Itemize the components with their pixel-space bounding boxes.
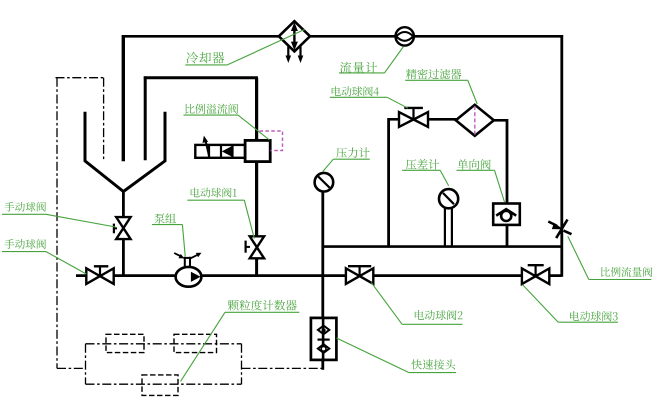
relief valve proportional arrow	[205, 140, 209, 159]
wire top line cooler to flow meter	[310, 35, 396, 38]
label valve2 电动球阀2	[371, 283, 462, 325]
pump drive arm left	[174, 253, 181, 256]
label pump 泵组	[152, 213, 185, 256]
wire counter loop bottom rail	[86, 383, 242, 385]
wire return drop into tank	[122, 35, 125, 161]
wire right vertical main	[560, 35, 563, 277]
check valve seat	[496, 209, 516, 215]
cooler inner arrowhead down	[291, 42, 298, 51]
wire manual valve to main line	[122, 239, 125, 277]
wire second drop into tank	[144, 76, 147, 160]
relief valve main body	[245, 140, 270, 161]
pressure gauge	[315, 173, 334, 192]
check valve box	[493, 204, 520, 225]
cooler inner arrow shaft	[293, 26, 295, 47]
quick coupler line	[322, 318, 325, 360]
cooler drain arrow right	[299, 47, 301, 58]
wire tank outlet to valve	[122, 191, 125, 218]
electric ball valve 1	[250, 236, 264, 247]
wire valve4 to filter	[428, 118, 457, 121]
proportional flow valve diag B stub	[564, 231, 572, 235]
cooler diamond	[279, 21, 310, 51]
wire filter loop right leg upper	[506, 119, 509, 204]
proportional flow valve arrowhead	[552, 223, 563, 230]
tank right wall	[123, 112, 165, 192]
wire top return line	[123, 35, 278, 38]
wire second horizontal line	[144, 76, 258, 79]
check valve ball	[501, 211, 511, 221]
label diff gauge 压差计	[402, 159, 449, 186]
wire dash-dot to counter loop	[57, 367, 86, 369]
wire relief valve lower leg	[255, 161, 258, 236]
label check valve 单向阀	[457, 159, 505, 202]
pump drive arm right	[191, 255, 198, 259]
wire counter loop right vertical	[241, 344, 243, 384]
wire diff gauge stem left	[444, 208, 446, 247]
particle counter box 3	[142, 375, 178, 396]
pump shaft	[184, 257, 186, 268]
proportional flow valve arrow shaft	[548, 222, 557, 226]
quick coupler separation bar	[318, 339, 330, 341]
label quick coupler 快速接头	[337, 338, 457, 373]
tank left wall	[85, 112, 123, 192]
electric ball valve 3	[522, 268, 536, 284]
label pressure gauge 压力计	[323, 147, 370, 171]
wire valve1 to main line	[255, 258, 258, 277]
electric ball valve 2	[346, 268, 360, 284]
wire relief valve upper leg	[255, 78, 258, 141]
relief valve strip divider 1	[208, 145, 210, 158]
label manual valve b 手动球阀	[2, 239, 86, 274]
flow meter inner lens	[396, 32, 413, 41]
wire counter loop top rail	[86, 343, 242, 345]
precision filter diamond	[456, 105, 494, 136]
pump circle	[176, 267, 202, 287]
flow meter body	[396, 27, 414, 45]
label valve4 电动球阀4	[330, 86, 408, 108]
cooler inner arrowhead up	[291, 22, 298, 31]
wire check valve to manifold	[506, 225, 509, 247]
relief valve strip flow triangle	[222, 146, 233, 157]
quick coupler box	[311, 318, 337, 360]
label precision filter 精密过滤器	[405, 69, 477, 104]
label flow meter 流量计	[339, 47, 404, 74]
pump flow triangle	[191, 272, 201, 282]
wire pressure gauge stem	[321, 191, 324, 318]
wire filter to right leg	[493, 119, 507, 122]
wire mid manifold line	[323, 245, 562, 248]
quick coupler upper half	[318, 326, 329, 335]
relief valve pilot dashed box	[260, 131, 283, 151]
wire dash-dot drop into tank	[103, 78, 105, 161]
wire main suction line	[76, 274, 562, 277]
particle counter box 1	[106, 334, 144, 352]
wire top line flow meter to right corner	[414, 35, 564, 38]
precision filter element	[474, 106, 476, 135]
wire filter branch left segment	[389, 118, 400, 121]
relief valve solenoid strip	[195, 145, 245, 158]
wire dash-dot left vertical	[56, 78, 58, 369]
cooler drain arrow left	[287, 47, 289, 58]
label cooler 冷却器	[185, 29, 305, 65]
label relief 比例溢流阀	[184, 104, 270, 140]
label valve1 电动球阀1	[187, 188, 254, 239]
wire filter loop left leg	[387, 118, 390, 247]
relief valve strip divider 2	[220, 145, 222, 158]
label particle counter 颗粒度计数器	[181, 300, 300, 382]
particle counter box 2	[174, 334, 217, 352]
wire dash-dot top horizontal	[56, 77, 105, 79]
quick coupler lower half	[318, 344, 329, 353]
wire counter loop left vertical	[85, 344, 87, 384]
differential pressure gauge	[439, 189, 458, 208]
manual ball valve tank outlet	[116, 217, 130, 228]
manual ball valve suction	[86, 268, 100, 284]
wire counter loop to quick coupler	[242, 367, 323, 369]
label manual valve a 手动球阀	[2, 202, 116, 227]
electric ball valve 4	[399, 112, 414, 127]
wire quick coupler tail	[321, 360, 324, 370]
proportional flow valve diag A	[556, 220, 567, 239]
label valve3 电动球阀3	[523, 285, 618, 323]
label prop flow valve 比例流量阀	[568, 236, 653, 279]
wire diff gauge stem right	[451, 208, 453, 247]
